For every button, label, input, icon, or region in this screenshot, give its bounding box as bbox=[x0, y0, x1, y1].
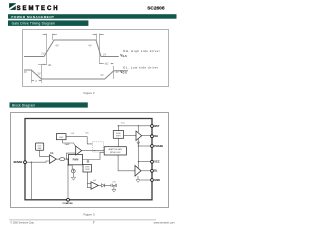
svg-text:PWM: PWM bbox=[73, 159, 79, 162]
svg-text:1.5V: 1.5V bbox=[112, 182, 115, 184]
svg-text:www.semtech.com: www.semtech.com bbox=[154, 222, 175, 225]
svg-text:OSC: OSC bbox=[59, 137, 64, 139]
svg-text:DRIVE LOGIC: DRIVE LOGIC bbox=[110, 152, 122, 154]
svg-text:SC2608: SC2608 bbox=[147, 5, 165, 11]
svg-text:Figure 3: Figure 3 bbox=[83, 212, 94, 216]
svg-text:4V: 4V bbox=[116, 70, 119, 74]
svg-text:RAMP: RAMP bbox=[65, 143, 71, 146]
svg-text:SHIFT: SHIFT bbox=[116, 136, 121, 138]
svg-text:4V: 4V bbox=[55, 43, 58, 47]
svg-text:2V: 2V bbox=[37, 72, 40, 76]
svg-text:DH: DH bbox=[154, 134, 158, 138]
svg-text:Block Diagram: Block Diagram bbox=[12, 103, 35, 107]
svg-text:4V: 4V bbox=[24, 70, 27, 74]
svg-text:Figure 2: Figure 2 bbox=[83, 91, 94, 95]
svg-text:POWER MANAGEMENT: POWER MANAGEMENT bbox=[11, 15, 54, 19]
svg-text:DL, Low side driver: DL, Low side driver bbox=[123, 65, 158, 69]
svg-text:SEMTECH: SEMTECH bbox=[17, 6, 60, 12]
svg-text:SENSE: SENSE bbox=[14, 160, 23, 164]
svg-text:4V: 4V bbox=[88, 43, 91, 47]
svg-text:Gate Drive Timing Diagram: Gate Drive Timing Diagram bbox=[12, 22, 56, 26]
svg-text:PHASE: PHASE bbox=[154, 144, 163, 148]
svg-text:DL: DL bbox=[154, 169, 158, 173]
svg-text:DH, High side driver: DH, High side driver bbox=[123, 49, 160, 53]
svg-text:td1: td1 bbox=[48, 63, 52, 67]
svg-text:VCC: VCC bbox=[154, 160, 160, 164]
svg-text:2V: 2V bbox=[103, 52, 106, 56]
svg-text:VG-S: VG-S bbox=[120, 70, 127, 75]
svg-text:BST: BST bbox=[154, 124, 160, 128]
svg-text:2V: 2V bbox=[41, 51, 44, 55]
svg-text:GND: GND bbox=[154, 178, 160, 182]
svg-text:LEVEL: LEVEL bbox=[116, 133, 121, 135]
svg-text:ADAPTIVE GATE: ADAPTIVE GATE bbox=[109, 148, 123, 151]
svg-text:td2: td2 bbox=[105, 62, 109, 66]
svg-text:COMP/SS: COMP/SS bbox=[63, 203, 74, 205]
svg-text:VG-S: VG-S bbox=[120, 53, 127, 58]
svg-text:EA: EA bbox=[50, 152, 54, 155]
svg-text:2V: 2V bbox=[100, 73, 103, 77]
svg-text:© 2000 Semtech Corp.: © 2000 Semtech Corp. bbox=[10, 222, 35, 225]
